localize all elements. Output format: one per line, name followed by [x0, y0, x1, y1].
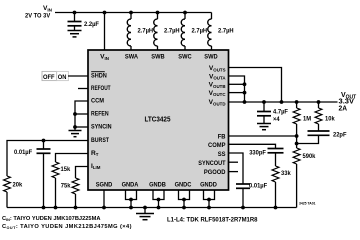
wire COMP	[229, 144, 276, 148]
svg-text:L1-L4: TDK RLF5018T-2R7M1R8: L1-L4: TDK RLF5018T-2R7M1R8	[167, 217, 258, 224]
svg-text:2.7µH: 2.7µH	[164, 27, 180, 34]
resistor 20k	[4, 176, 23, 208]
svg-text:20k: 20k	[13, 182, 23, 189]
svg-text:SHDN: SHDN	[91, 72, 107, 79]
svg-text:GNDB: GNDB	[149, 181, 166, 188]
wire SYNCIN	[75, 126, 88, 128]
capacitor 22pF	[297, 131, 347, 144]
svg-text:75k: 75k	[61, 183, 71, 190]
junction VIN rail / CIN	[73, 11, 77, 15]
wire VOUTB	[229, 83, 245, 85]
svg-text:2.7µH: 2.7µH	[218, 27, 234, 34]
wire SHDN	[68, 75, 88, 77]
inductor L4 2.7uH	[208, 13, 234, 51]
svg-text:LTC3425: LTC3425	[145, 115, 171, 124]
wire VIN pin drop	[104, 13, 106, 51]
svg-text:COUT: TAIYO YUDEN JMK212BJ475M: COUT: TAIYO YUDEN JMK212BJ475MG (×4)	[2, 224, 132, 230]
capacitor 330pF	[249, 149, 283, 167]
ground (CCM/REFEN/SYNCIN)	[69, 131, 82, 137]
resistor 33k	[272, 166, 291, 209]
svg-text:15k: 15k	[61, 166, 71, 173]
svg-text:GNDA: GNDA	[122, 181, 139, 188]
resistor 590k	[293, 148, 315, 208]
wire ground rail	[7, 207, 297, 209]
inductor L1 2.7uH	[127, 11, 153, 50]
svg-text:SWC: SWC	[178, 54, 191, 61]
capacitor 0.01uF (BURST)	[14, 141, 51, 208]
svg-text:CIN: TAIYO YUDEN JMK107BJ225MA: CIN: TAIYO YUDEN JMK107BJ225MA	[2, 216, 100, 222]
IC U1 LTC3425	[88, 50, 229, 190]
svg-text:0.01µF: 0.01µF	[249, 183, 267, 190]
resistor 15k	[52, 162, 70, 208]
wire VOUT rail	[229, 101, 338, 103]
wire SS	[229, 153, 244, 184]
svg-text:33k: 33k	[281, 170, 291, 177]
wire FB	[229, 135, 297, 137]
wire RT	[56, 154, 89, 163]
note CIN part number	[2, 202, 316, 231]
wire SGND	[103, 190, 105, 208]
wire GNDC staple	[179, 190, 190, 209]
wire VIN top rail	[55, 12, 212, 14]
node VOUT terminal labels	[339, 92, 357, 113]
svg-text:10k: 10k	[325, 116, 335, 123]
svg-text:SGND: SGND	[96, 181, 113, 188]
svg-text:22pF: 22pF	[333, 132, 347, 139]
svg-text:3.3V: 3.3V	[339, 99, 355, 106]
capacitor COUT 4.7uF x4	[257, 102, 288, 124]
svg-text:BURST: BURST	[91, 137, 110, 144]
capacitor 0.01uF (SS)	[236, 183, 267, 210]
svg-text:REFEN: REFEN	[91, 110, 109, 117]
junction VIN rail / VIN pin	[103, 11, 107, 15]
svg-text:SYNCOUT: SYNCOUT	[198, 160, 226, 167]
svg-text:2.7µH: 2.7µH	[138, 27, 154, 34]
svg-text:FB: FB	[218, 133, 226, 140]
svg-text:COMP: COMP	[208, 142, 226, 149]
svg-text:GNDC: GNDC	[175, 181, 192, 188]
capacitor CIN 2.2uF	[68, 13, 100, 31]
svg-text:VIN: VIN	[43, 5, 53, 12]
wire VOUTC	[229, 92, 245, 94]
svg-text:330pF: 330pF	[249, 150, 266, 157]
node OFF/ON	[42, 71, 68, 81]
inductor L3 2.7uH	[181, 11, 207, 50]
resistor 75k	[61, 178, 79, 208]
wire SYNCOUT stub	[229, 161, 239, 163]
wire ILIM	[76, 167, 89, 179]
wire GNDA staple	[126, 190, 137, 209]
wire REFOUT stub	[78, 88, 88, 90]
wire REFEN	[75, 113, 88, 115]
svg-text:2A: 2A	[339, 106, 348, 113]
svg-text:PGOOD: PGOOD	[204, 169, 226, 176]
node VIN source label	[25, 5, 53, 20]
svg-text:2.2µF: 2.2µF	[84, 21, 99, 28]
wire GNDD staple	[204, 190, 215, 209]
svg-text:SWA: SWA	[125, 54, 138, 61]
resistor 10k	[315, 102, 335, 131]
svg-text:2V TO 3V: 2V TO 3V	[25, 13, 51, 20]
wire CCM	[75, 101, 88, 130]
svg-text:3425 TA01: 3425 TA01	[299, 202, 316, 206]
wire GNDB staple	[153, 190, 164, 209]
svg-text:CCM: CCM	[91, 97, 104, 104]
wire VOUTS sense	[229, 68, 282, 103]
wire PGOOD stub	[229, 171, 239, 173]
svg-text:SWD: SWD	[204, 54, 217, 61]
svg-text:ON: ON	[58, 74, 67, 81]
ground (CIN)	[68, 31, 82, 37]
svg-text:OFF: OFF	[43, 74, 55, 81]
wire VOUTA	[229, 76, 245, 102]
svg-text:590k: 590k	[303, 153, 316, 160]
SHDN overline	[91, 71, 105, 73]
ground (COUT)	[257, 124, 271, 130]
resistor 1M	[293, 102, 311, 148]
svg-text:4.7µF: 4.7µF	[273, 109, 288, 116]
wire BURST	[7, 141, 88, 177]
svg-text:SS: SS	[218, 151, 226, 158]
inductor L2 2.7uH	[154, 11, 180, 50]
svg-text:REFOUT: REFOUT	[91, 85, 111, 92]
svg-text:2.7µH: 2.7µH	[192, 27, 208, 34]
ground (main rail)	[136, 206, 154, 220]
svg-text:SWB: SWB	[151, 54, 164, 61]
svg-text:1M: 1M	[303, 116, 311, 123]
svg-text:GNDD: GNDD	[200, 181, 217, 188]
svg-text:×4: ×4	[273, 116, 280, 123]
svg-text:SYNCIN: SYNCIN	[91, 123, 112, 130]
svg-text:0.01µF: 0.01µF	[14, 149, 32, 156]
